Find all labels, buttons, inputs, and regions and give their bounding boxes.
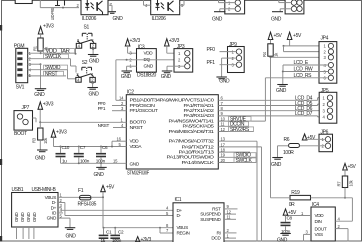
- svg-text:PA7/MOSI/AD7/T32: PA7/MOSI/AD7/T32: [169, 138, 215, 143]
- svg-text:LCD_E: LCD_E: [294, 60, 309, 66]
- svg-text:GND: GND: [113, 16, 124, 22]
- svg-text:GND: GND: [144, 64, 154, 69]
- svg-text:LCD_RW: LCD_RW: [294, 67, 314, 73]
- svg-text:GND: GND: [130, 162, 140, 167]
- svg-text:+3V3: +3V3: [130, 38, 141, 44]
- svg-text:VDDA: VDDA: [130, 144, 143, 149]
- svg-text:+3V3: +3V3: [56, 129, 67, 135]
- svg-text:GND: GND: [271, 16, 282, 22]
- svg-text:LCD_D7: LCD_D7: [295, 111, 313, 117]
- svg-text:GND: GND: [34, 92, 45, 98]
- svg-text:ILD206: ILD206: [82, 16, 97, 22]
- svg-text:SWCLK: SWCLK: [236, 158, 253, 164]
- svg-text:C10: C10: [62, 145, 70, 150]
- svg-text:100n: 100n: [80, 158, 90, 163]
- svg-text:+3V3: +3V3: [141, 237, 152, 242]
- svg-text:GND: GND: [26, 212, 31, 222]
- svg-text:GND: GND: [35, 156, 46, 162]
- svg-text:SUSPEND: SUSPEND: [200, 217, 221, 222]
- svg-text:LED-PRG: LED-PRG: [50, 8, 55, 20]
- svg-text:C8: C8: [287, 216, 293, 221]
- svg-text:GND: GND: [32, 212, 37, 222]
- svg-text:DS18B20: DS18B20: [137, 72, 157, 78]
- svg-text:+5V: +5V: [348, 164, 357, 170]
- svg-text:GND: GND: [20, 212, 25, 222]
- svg-text:+5V: +5V: [293, 33, 302, 39]
- svg-text:PF1: PF1: [98, 106, 106, 111]
- svg-text:+3V3: +3V3: [43, 24, 54, 30]
- svg-text:GND: GND: [121, 74, 132, 80]
- svg-text:VDD: VDD: [315, 213, 325, 218]
- svg-text:+5V: +5V: [307, 135, 316, 141]
- svg-text:NRST: NRST: [130, 125, 144, 130]
- svg-text:LCD_RS: LCD_RS: [294, 73, 313, 79]
- svg-text:0R: 0R: [289, 202, 295, 208]
- svg-text:JP4: JP4: [321, 36, 329, 42]
- svg-text:GND: GND: [89, 59, 100, 65]
- svg-text:DCD: DCD: [211, 236, 221, 241]
- svg-text:GND: GND: [161, 74, 172, 80]
- svg-text:GND: GND: [277, 238, 288, 242]
- svg-text:GND: GND: [212, 16, 223, 22]
- svg-text:PF0: PF0: [207, 47, 216, 53]
- svg-text:GND: GND: [94, 172, 105, 178]
- svg-text:STM32F030F: STM32F030F: [127, 170, 149, 176]
- svg-text:DOUT: DOUT: [315, 226, 327, 231]
- svg-text:S2: S2: [82, 60, 88, 66]
- svg-text:GND: GND: [14, 212, 19, 222]
- svg-text:100R: 100R: [283, 150, 294, 156]
- svg-text:GND: GND: [47, 216, 57, 221]
- svg-text:GND: GND: [219, 79, 230, 85]
- svg-text:JP7: JP7: [22, 105, 30, 111]
- svg-text:S1: S1: [84, 25, 90, 31]
- svg-text:PF1: PF1: [207, 60, 216, 66]
- svg-text:VDD: VDD: [130, 139, 140, 144]
- svg-text:NRST: NRST: [98, 123, 110, 128]
- svg-text:100n: 100n: [112, 238, 122, 242]
- svg-text:SWDIO: SWDIO: [45, 65, 61, 71]
- svg-text:DIN: DIN: [315, 219, 322, 224]
- svg-text:+3V3: +3V3: [43, 102, 54, 108]
- svg-text:PA6/MISO/AD6/T31: PA6/MISO/AD6/T31: [169, 129, 215, 134]
- svg-text:C2: C2: [118, 229, 124, 234]
- svg-text:1u: 1u: [101, 238, 106, 242]
- svg-text:PF1/OSCOUT: PF1/OSCOUT: [130, 108, 159, 113]
- svg-text:NRST: NRST: [45, 71, 58, 77]
- svg-text:GND: GND: [271, 162, 282, 168]
- svg-text:ILD206: ILD206: [152, 16, 167, 22]
- svg-text:GND: GND: [276, 88, 287, 94]
- svg-text:R6: R6: [284, 137, 290, 143]
- svg-text:C6: C6: [102, 145, 108, 150]
- svg-text:IC1: IC1: [175, 197, 182, 203]
- svg-text:GND: GND: [89, 92, 100, 98]
- svg-text:REGIN: REGIN: [177, 230, 190, 235]
- svg-text:BOOT: BOOT: [14, 131, 27, 137]
- svg-text:C7: C7: [80, 145, 86, 150]
- svg-text:SRV2/RS: SRV2/RS: [230, 127, 250, 133]
- svg-text:C1: C1: [106, 229, 112, 234]
- svg-text:RFSI-035: RFSI-035: [78, 201, 97, 207]
- svg-text:F1: F1: [78, 188, 84, 194]
- svg-text:+5V: +5V: [106, 185, 115, 191]
- svg-text:1u: 1u: [62, 158, 67, 163]
- svg-text:SV1: SV1: [16, 85, 25, 91]
- svg-text:VDD: VDD: [144, 51, 154, 56]
- svg-text:GND: GND: [66, 234, 77, 240]
- svg-text:VSS: VSS: [315, 232, 324, 237]
- svg-text:PA14/SWCLK: PA14/SWCLK: [182, 160, 216, 165]
- svg-text:SWCLK: SWCLK: [45, 54, 62, 60]
- svg-text:+5V: +5V: [274, 33, 283, 39]
